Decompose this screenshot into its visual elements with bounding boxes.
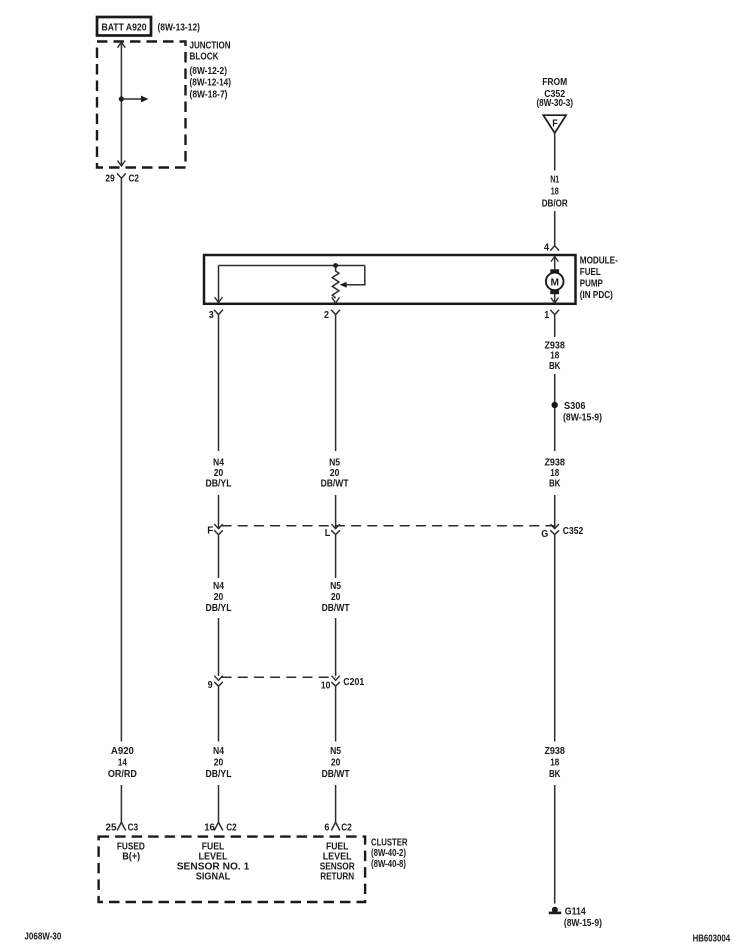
svg-text:20: 20 — [214, 758, 224, 769]
svg-text:BATT A920: BATT A920 — [102, 23, 147, 34]
svg-text:FROM: FROM — [542, 77, 567, 88]
svg-text:DB/YL: DB/YL — [206, 603, 232, 614]
svg-text:N1: N1 — [550, 174, 559, 185]
svg-text:(8W-15-9): (8W-15-9) — [563, 412, 602, 424]
svg-text:20: 20 — [331, 758, 341, 769]
svg-text:F: F — [207, 525, 213, 536]
svg-text:Z938: Z938 — [544, 458, 565, 469]
svg-text:C3: C3 — [128, 823, 139, 834]
svg-text:20: 20 — [331, 592, 341, 603]
svg-text:20: 20 — [214, 592, 224, 603]
svg-text:BK: BK — [549, 361, 561, 372]
svg-text:A920: A920 — [111, 746, 134, 757]
svg-text:N5: N5 — [329, 458, 340, 469]
svg-text:6: 6 — [324, 823, 329, 834]
svg-text:DB/OR: DB/OR — [542, 199, 569, 210]
svg-text:3: 3 — [209, 310, 214, 321]
svg-text:(IN PDC): (IN PDC) — [580, 289, 613, 301]
svg-text:C352: C352 — [563, 526, 584, 537]
svg-text:HB603004: HB603004 — [693, 933, 731, 944]
svg-text:N4: N4 — [213, 581, 224, 592]
svg-text:OR/RD: OR/RD — [108, 769, 137, 780]
svg-text:G: G — [541, 529, 548, 540]
svg-text:16: 16 — [204, 823, 215, 834]
svg-text:DB/YL: DB/YL — [206, 478, 232, 489]
svg-text:J068W-30: J068W-30 — [24, 931, 61, 942]
svg-text:10: 10 — [321, 680, 331, 691]
svg-text:C2: C2 — [129, 174, 140, 185]
svg-text:DB/WT: DB/WT — [322, 603, 350, 614]
svg-text:SIGNAL: SIGNAL — [196, 871, 231, 882]
svg-text:2: 2 — [324, 310, 329, 321]
svg-text:L: L — [325, 528, 331, 539]
svg-text:4: 4 — [544, 242, 549, 253]
svg-text:N5: N5 — [330, 581, 341, 592]
svg-text:20: 20 — [214, 468, 224, 479]
svg-text:(8W-12-2): (8W-12-2) — [190, 65, 228, 77]
svg-text:FUEL: FUEL — [580, 266, 601, 278]
svg-text:(8W-13-12): (8W-13-12) — [158, 22, 201, 34]
svg-text:18: 18 — [550, 758, 559, 769]
svg-text:(8W-15-9): (8W-15-9) — [564, 917, 602, 929]
svg-text:N5: N5 — [330, 746, 341, 757]
svg-text:BK: BK — [549, 769, 561, 780]
svg-text:(8W-12-14): (8W-12-14) — [190, 77, 232, 89]
svg-text:(8W-40-8): (8W-40-8) — [371, 858, 406, 870]
svg-text:18: 18 — [550, 468, 559, 479]
svg-text:S306: S306 — [564, 401, 586, 412]
svg-text:9: 9 — [208, 680, 213, 691]
svg-text:G114: G114 — [565, 906, 586, 917]
svg-text:N4: N4 — [213, 458, 224, 469]
svg-text:BLOCK: BLOCK — [190, 50, 219, 62]
svg-text:20: 20 — [330, 468, 340, 479]
svg-text:MODULE-: MODULE- — [580, 255, 618, 267]
svg-text:M: M — [550, 276, 559, 288]
svg-text:DB/WT: DB/WT — [321, 478, 349, 489]
svg-text:(8W-18-7): (8W-18-7) — [190, 88, 228, 100]
svg-text:C2: C2 — [226, 823, 237, 834]
svg-text:18: 18 — [551, 186, 559, 197]
svg-text:(8W-30-3): (8W-30-3) — [536, 97, 573, 109]
svg-text:DB/WT: DB/WT — [322, 769, 350, 780]
svg-text:14: 14 — [118, 758, 127, 769]
svg-text:C201: C201 — [343, 677, 364, 688]
svg-text:29: 29 — [105, 174, 115, 185]
svg-text:1: 1 — [544, 310, 549, 321]
svg-text:N4: N4 — [213, 746, 224, 757]
svg-text:BK: BK — [549, 478, 561, 489]
svg-text:B(+): B(+) — [122, 851, 140, 862]
svg-text:C2: C2 — [341, 823, 352, 834]
svg-text:25: 25 — [106, 823, 117, 834]
svg-text:PUMP: PUMP — [580, 277, 603, 289]
svg-text:Z938: Z938 — [544, 746, 565, 757]
svg-text:F: F — [552, 119, 558, 130]
svg-text:RETURN: RETURN — [320, 871, 354, 882]
svg-text:DB/YL: DB/YL — [206, 769, 232, 780]
